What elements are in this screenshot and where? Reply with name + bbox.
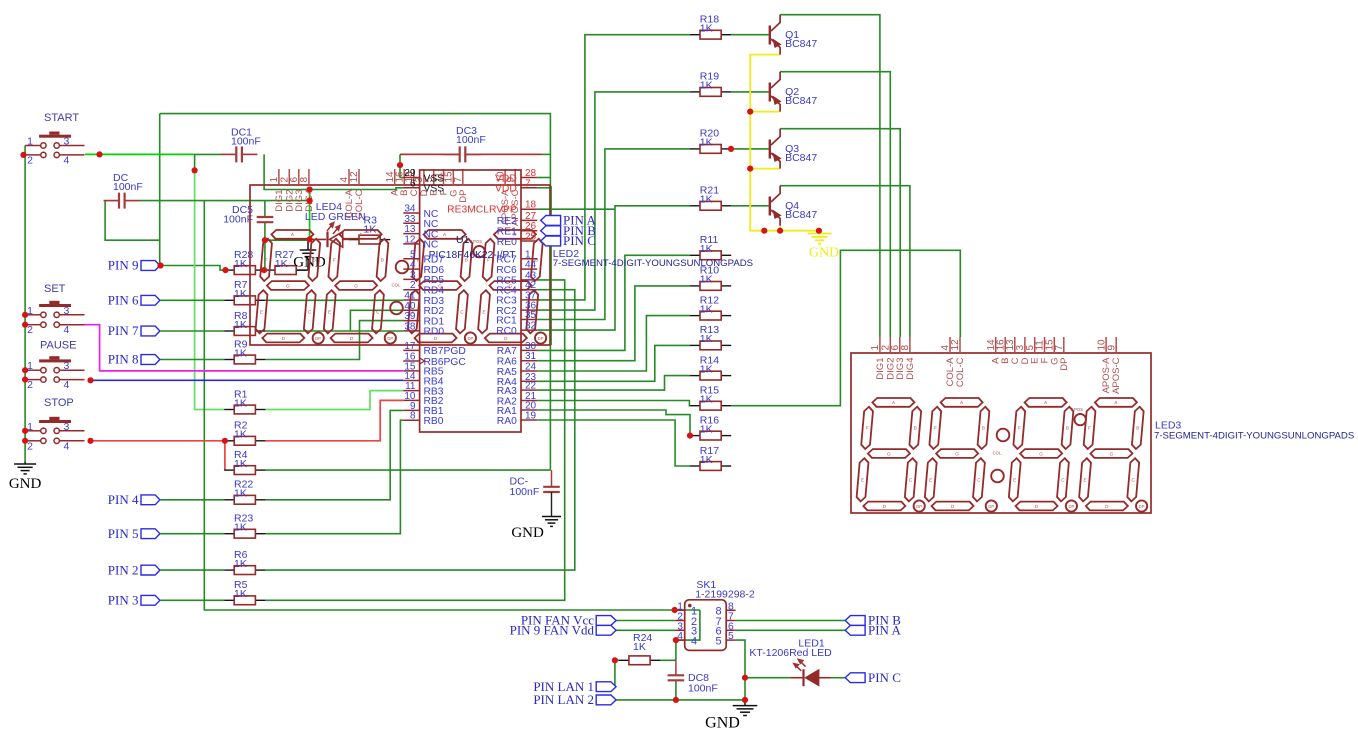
wire MCLR jog [537,208,615,210]
IC pin 43 RC5 [521,279,537,281]
IC pin 40 RD2 [403,309,419,311]
wire PIN6 to R7 [161,299,225,301]
ground DC- [542,517,561,527]
svg-text:44: 44 [525,260,537,271]
resistor R23 1K [224,533,234,535]
ground left column [24,461,26,464]
wire R1 net vertical dark part [194,154,196,170]
IC pin 26 RE1 [521,230,537,232]
net flag PIN LAN 2 [596,695,616,705]
resistor R19 1K [690,91,700,93]
svg-text:RB0: RB0 [424,416,444,427]
svg-text:BC847: BC847 [785,38,817,50]
wire R21 to Q4 base [731,205,768,207]
pushbutton STOP [25,397,84,452]
junction at 674.6,610.0 [672,607,678,613]
svg-text:4: 4 [64,324,70,336]
svg-text:PIN 3: PIN 3 [108,593,139,608]
wire RA0 pin19 to R17 [537,420,690,466]
wire R24 right to DC8 node [660,659,676,661]
svg-text:PAUSE: PAUSE [40,340,76,352]
wire START net bright [85,153,195,155]
svg-text:12: 12 [404,234,416,245]
IC pin 37 RC3 [521,299,537,301]
wire R1 net pale vertical [195,170,225,409]
junction at 90.5,440.8 [87,438,93,444]
IC pin 32 RC0 [521,329,537,331]
svg-text:GND: GND [705,715,740,732]
wire RC5 pin43 to R5 PIN3 net [265,280,564,600]
resistor R14 1K [690,375,700,377]
junction at 160.5,265.5 [157,262,163,268]
svg-text:1K: 1K [700,137,713,149]
junction at 675.9,640.1 [673,637,679,643]
junction at 309.6,239.4 [307,236,313,242]
junction at 99.5,154.4 [96,151,102,157]
net flag PIN 9 [141,261,160,271]
svg-text:6: 6 [410,178,416,189]
svg-text:1K: 1K [700,274,713,286]
wire VDD pin7 link [537,187,550,189]
SK1 pin 8 [726,609,735,611]
net flag PIN A [541,216,561,226]
ground yellow transistor emitters [819,231,821,234]
svg-text:3: 3 [64,136,70,148]
wire SK1 internal bracket [676,610,700,660]
junction at 225.5,270.1 [222,267,228,273]
wire RA7 pin30 to R11 [537,255,690,350]
svg-text:RE3MCLRVPP: RE3MCLRVPP [447,205,517,216]
wire DC3 right link [465,153,542,155]
LED4 LED GREEN [305,201,366,247]
svg-text:2: 2 [27,324,33,336]
svg-text:100nF: 100nF [231,136,261,148]
svg-text:1-2199298-2: 1-2199298-2 [695,589,755,601]
wire PIN 9 to R28 [161,266,225,271]
wire R8 to RD0 [265,330,403,332]
wire VDD top rail from PIN 9 net [160,114,551,178]
wire R19 to Q2 base [731,91,768,93]
ground SK1 [744,700,746,706]
IC pin 33 NC [403,222,419,224]
connector SK1 1-2199298-2 [685,600,727,651]
resistor R15 1K [690,405,700,407]
svg-text:100nF: 100nF [688,683,718,695]
IC pin 11 RB3 [403,390,419,392]
IC pin 24 RA5 [521,370,537,372]
svg-text:1K: 1K [700,243,713,255]
svg-text:1K: 1K [234,397,247,409]
wire PIN2 to R6 [161,569,225,571]
net flag PIN 4 [141,495,160,505]
junction at 264.9,240.2 [262,237,268,243]
svg-text:3: 3 [64,360,70,372]
IC U1 PIC18F46K22-I/PT [420,170,521,432]
IC pin 6 VSS [403,187,419,189]
svg-text:RD0: RD0 [424,327,445,338]
wire R15 to LED3 COL-C [731,250,960,405]
IC pin 39 RD1 [403,320,419,322]
wire PIN4 to R22 [161,499,225,501]
svg-text:PIN 9: PIN 9 [108,258,139,273]
IC pin 30 RA7 [521,349,537,351]
svg-text:2: 2 [27,379,33,391]
svg-text:4: 4 [64,379,70,391]
capacitor DC5 100nF [257,217,274,222]
svg-text:RA3: RA3 [497,386,517,397]
wire DC left elbow [105,201,160,241]
capacitor DC1 100nF [236,146,242,162]
svg-text:PIN C: PIN C [868,670,901,685]
IC pin 20 RA1 [521,409,537,411]
resistor R18 1K [690,34,700,36]
svg-text:KT-1206Red LED: KT-1206Red LED [749,647,832,659]
wire R23 to RB0 [265,420,403,534]
svg-text:GND: GND [511,525,544,541]
IC pin 1 RC7 [521,258,537,260]
net flag PIN B right [845,616,865,626]
ground near LED4 [307,239,309,250]
wire SK1 pin2 from PIN FAN Vcc [616,620,676,622]
junction at 309.6,189.5 [307,186,313,192]
svg-text:1K: 1K [633,641,646,653]
svg-text:1K: 1K [234,488,247,500]
wire red branch to R4 [224,441,226,470]
wire SK1 pin5 to LED1 branch [736,640,745,700]
svg-text:18: 18 [525,200,537,211]
junction at 780.1,230.7 [777,228,783,234]
svg-text:100nF: 100nF [456,134,486,146]
IC pin 35 RC1 [521,319,537,321]
transistor Q2 BC847 [769,72,818,112]
wire R7 to RD3 [265,299,403,301]
wire Q1 collector to LED3 DIG1 [780,15,880,337]
resistor R5 1K [224,599,234,601]
wire PIN LAN 1 to R24 [615,660,619,686]
svg-text:BC847: BC847 [785,95,817,107]
junction at 690,435.6 [687,433,693,439]
transistor Q3 BC847 [769,129,818,169]
svg-text:1K: 1K [234,558,247,570]
junction at 25.1,314.8 [22,312,28,318]
svg-text:BC847: BC847 [785,152,817,164]
svg-text:RB7PGD: RB7PGD [424,346,466,357]
IC pin 22 RA3 [521,389,537,391]
svg-text:1K: 1K [700,454,713,466]
wire DIG4 vertical [309,190,311,240]
SK1 pin 4 [675,639,685,641]
net flag PIN 6 [141,295,160,305]
junction at 745,677.7 [742,675,748,681]
svg-text:4: 4 [64,154,70,166]
pushbutton SET [25,283,84,336]
svg-text:1K: 1K [700,333,713,345]
capacitor DC8 100nF [668,675,685,680]
svg-text:2: 2 [27,154,33,166]
svg-text:1K: 1K [234,319,247,331]
LED1 KT-1206Red LED [749,638,832,687]
resistor R10 1K [690,285,700,287]
svg-text:25: 25 [525,232,537,243]
SK1 pin 5 [726,639,735,641]
resistor R21 1K [690,205,700,207]
svg-text:VDD: VDD [495,184,517,195]
svg-text:STOP: STOP [44,397,74,409]
resistor R4 1K [224,469,234,471]
junction at 818.9,230.7 [816,228,822,234]
IC pin 44 RC6 [521,268,537,270]
IC pin 3 RD5 [403,278,419,280]
net flag PIN A right [845,625,865,635]
wire RC0 pin32 to R21 vertical [537,206,690,330]
IC pin 41 RD3 [403,299,419,301]
wire LED1 row [745,677,791,679]
svg-text:PIN 7: PIN 7 [108,323,139,338]
junction at 224.9,440.8 [222,438,228,444]
svg-text:PIN 4: PIN 4 [108,492,139,507]
IC pin 9 RB1 [403,409,419,411]
resistor R3 1K [349,239,359,241]
IC pin 38 RD0 [403,330,419,332]
junction at 731,148.9 [728,146,734,152]
SK1 pin 2 [675,620,685,622]
wire RC3 pin37 to R18 [537,35,690,300]
net flag PIN 5 [141,529,160,539]
net flag PIN C [541,236,561,246]
svg-text:1K: 1K [700,194,713,206]
svg-text:4: 4 [691,635,697,647]
junction at 25.1,379.6 [22,377,28,383]
junction at 764.3,230.7 [761,228,767,234]
svg-text:PIN C: PIN C [563,233,596,248]
junction at 745,699.9 [742,697,748,703]
svg-text:1K: 1K [700,23,713,35]
pushbutton START [25,112,84,166]
wire SK1 pin6 to PIN A [736,629,846,631]
IC pin 42 RC4 [521,289,537,291]
svg-text:22: 22 [525,381,537,392]
IC pin 31 RA6 [521,360,537,362]
wire PIN7 to R8 [161,330,225,332]
wire RC1 pin35 to R20 [537,149,690,320]
svg-text:4: 4 [64,440,70,452]
transistor Q1 BC847 [769,15,818,55]
svg-text:BC847: BC847 [785,209,817,221]
wire left button column [24,146,26,462]
svg-text:PIN 2: PIN 2 [108,562,139,577]
IC pin 29 VSS [403,177,419,179]
wire R4 to VDD vertical [265,469,550,471]
resistor R17 1K [690,465,700,467]
wire RA5 pin24 to R12 [537,316,690,371]
wire SK1 pin3 from PIN 9 FAN Vdd [616,629,676,631]
IC pin 12 NC [403,243,419,245]
wire LED1 to PIN C dark red [819,677,831,679]
wire RA4 pin23 to R13 [537,345,690,381]
svg-text:100nF: 100nF [510,486,540,498]
svg-text:SET: SET [44,283,66,295]
IC pin 7 VDD [521,187,537,189]
net flag PIN B [541,226,561,236]
svg-text:1K: 1K [700,423,713,435]
IC pin 18 [521,208,537,210]
junction at 750.2,168.6 [747,166,753,172]
IC pin 14 RB4 [403,380,419,382]
wire RC2 pin36 to R19 [537,92,690,310]
svg-text:17: 17 [404,341,416,352]
wire RA3 pin22 to R14 [537,376,690,391]
resistor R11 1K [690,254,700,256]
svg-text:NC: NC [424,240,439,251]
resistor R13 1K [690,344,700,346]
svg-text:1K: 1K [700,80,713,92]
resistor R16 1K [690,435,700,437]
resistor R28 1K [224,269,234,271]
wire R9 to RD1 [265,321,403,360]
svg-text:1K: 1K [700,303,713,315]
SK1 pin 1 [675,609,685,611]
svg-text:RC1: RC1 [496,315,517,326]
wire DC3 left vertical to VSS pin29 [400,154,403,177]
wire R1 to RB3 [265,391,403,410]
net flag PIN 3 [141,595,160,605]
IC pin 10 RB2 [403,399,419,401]
svg-text:1K: 1K [234,588,247,600]
wire PIN9 vertical [159,114,161,266]
svg-text:3: 3 [64,421,70,433]
net flag PIN C right [845,673,865,683]
IC pin 34 NC [403,212,419,214]
svg-text:8: 8 [410,411,416,422]
wire PIN LAN 2 row [616,699,746,701]
svg-text:1K: 1K [234,458,247,470]
resistor R6 1K [224,569,234,571]
svg-text:GND: GND [9,476,42,492]
IC pin 19 RA0 [521,419,537,421]
wire SK1 pin7 to PIN B [736,620,846,622]
wire DC5 vertical [264,201,266,217]
svg-text:5: 5 [728,631,734,642]
net flag PIN 9 FAN Vdd [596,625,616,635]
svg-text:PIN LAN 2: PIN LAN 2 [533,692,594,707]
wire R22 to RB1 [265,410,403,499]
wire blue PAUSE to RB4 [91,379,404,381]
svg-text:100nF: 100nF [223,214,253,226]
net flag PIN 7 [141,326,160,336]
wire Q4 collector to LED3 DIG4 [780,186,910,337]
resistor R20 1K [690,148,700,150]
IC pin 4 RD6 [403,268,419,270]
svg-text:VSS: VSS [424,184,445,195]
junction at 25.1,370.2 [22,367,28,373]
svg-text:1K: 1K [234,522,247,534]
svg-text:1K: 1K [234,288,247,300]
svg-text:1: 1 [27,136,33,148]
junction at 750.2,111.6 [747,109,753,115]
junction at 25.1,324.7 [22,322,28,328]
IC pin 15 RB5 [403,370,419,372]
junction at 675.9,699.9 [673,697,679,703]
IC pin 5 RD7 [403,258,419,260]
wire DC right rail y200 [140,200,310,202]
junction at 264.1,270.1 [261,267,267,273]
junction at 614.9,660.3 [612,657,618,663]
junction at 400,165.1 [397,162,403,168]
capacitor DC3 100nF [460,146,466,162]
junction at 309.6,200.6 [307,198,313,204]
wire DC8 bottom to LAN2 row [675,680,677,700]
wire red STOP to RB2 [91,440,225,442]
IC pin 27 RE2 [521,219,537,221]
junction at 23.5,154.9 [20,152,26,158]
net flag PIN LAN 1 [596,682,616,692]
IC pin 2 RD4 [403,289,419,291]
svg-text:RC6: RC6 [496,265,517,276]
wire yellow emitter bus [750,55,819,231]
svg-text:7-SEGMENT-4DIGIT-YOUNGSUNLONGP: 7-SEGMENT-4DIGIT-YOUNGSUNLONGPADS [1154,431,1354,442]
IC pin 8 RB0 [403,419,419,421]
wire VDD vertical to R4 row (over LED2 edge) [549,178,551,471]
wire PIN5 to R23 [161,533,225,535]
wire magenta SET to RB5 [84,325,404,371]
wire R20 to Q3 base [731,148,768,150]
display LED3 7-segment [851,337,1151,513]
svg-text:32: 32 [525,321,537,332]
svg-text:2: 2 [27,440,33,452]
resistor R2 1K [224,440,234,442]
svg-text:1K: 1K [234,429,247,441]
wire RA1 pin20 to R16 [537,410,690,436]
IC pin 23 RA4 [521,380,537,382]
capacitor DC 100nF [119,193,125,209]
resistor R27 1K [265,269,275,271]
net flag PIN 8 [141,355,160,365]
wire RC4 pin42 to R6 PIN2 net [265,290,574,570]
svg-text:PIN 8: PIN 8 [108,352,139,367]
resistor R22 1K [224,499,234,501]
wire SK1 pin1 long vertical [204,201,700,610]
resistor R7 1K [224,299,234,301]
IC pin 25 RE0 [521,240,537,242]
svg-text:PIN 5: PIN 5 [108,526,139,541]
IC pin 36 RC2 [521,309,537,311]
wire RA2 pin21 to R15 [537,401,690,406]
resistor R9 1K [224,359,234,361]
junction at 90.5,380.3 [87,377,93,383]
svg-text:U1: U1 [456,234,470,246]
wire DC1 left link [195,153,221,155]
SK1 pin 3 [675,629,685,631]
svg-text:38: 38 [404,321,416,332]
wire Q3 collector to LED3 DIG3 [780,129,900,337]
IC pin 28 VDD [521,177,537,179]
net flag PIN FAN Vcc [596,616,616,626]
wire DC1 right to VSS rail [264,154,403,189]
svg-text:PIN 9 FAN Vdd: PIN 9 FAN Vdd [510,623,595,638]
svg-text:19: 19 [525,411,537,422]
resistor R1 1K [224,409,234,411]
wire Q2 collector to LED3 DIG2 [780,72,890,337]
wire PIN8 to R9 [161,359,225,361]
junction at 25.1,430.8 [22,428,28,434]
svg-text:GND: GND [809,246,839,261]
svg-text:1K: 1K [700,363,713,375]
IC pin 16 RB6PGC [403,360,419,362]
wire VDD overlay on LED2 edge [550,186,552,345]
transistor Q4 BC847 [769,186,818,226]
IC pin 13 NC [403,233,419,235]
svg-text:1K: 1K [700,394,713,406]
